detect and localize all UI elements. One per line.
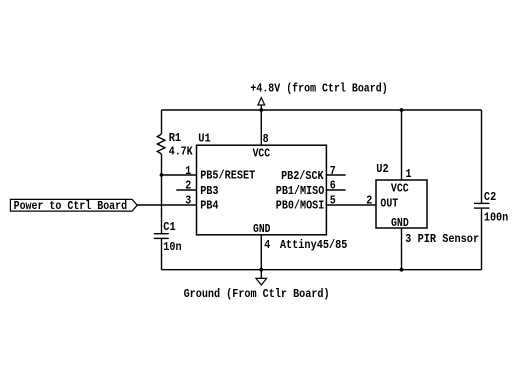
svg-text:GND: GND bbox=[253, 223, 271, 236]
wire pin 3 (flag to PB4) bbox=[137, 204, 197, 206]
svg-text:PB2/SCK: PB2/SCK bbox=[281, 170, 324, 183]
junction dot U2 pin1/top rail bbox=[400, 108, 404, 112]
svg-text:PB1/MISO: PB1/MISO bbox=[276, 185, 325, 198]
svg-text:2: 2 bbox=[185, 180, 191, 193]
capacitor C2 bbox=[474, 203, 490, 208]
junction dot pin4/bottom rail bbox=[259, 268, 263, 272]
svg-text:U1: U1 bbox=[198, 133, 210, 146]
svg-text:R1: R1 bbox=[169, 132, 181, 145]
power symbol +4.8V arrow bbox=[258, 98, 265, 110]
svg-text:3: 3 bbox=[405, 233, 411, 246]
svg-text:8: 8 bbox=[263, 133, 269, 146]
junction dot U2 pin3/bottom rail bbox=[400, 268, 404, 272]
op-amp U1 box (Attiny45/85) bbox=[197, 145, 327, 235]
svg-text:+4.8V (from Ctrl Board): +4.8V (from Ctrl Board) bbox=[250, 83, 387, 96]
svg-text:Power to Ctrl Board: Power to Ctrl Board bbox=[14, 200, 128, 213]
svg-text:PIR Sensor: PIR Sensor bbox=[418, 233, 480, 246]
svg-text:5: 5 bbox=[330, 194, 336, 207]
svg-text:PB0/MOSI: PB0/MOSI bbox=[276, 199, 325, 212]
op-amp U2 box (PIR Sensor) bbox=[376, 180, 427, 228]
capacitor C1 bbox=[154, 234, 169, 239]
svg-text:C1: C1 bbox=[163, 221, 175, 234]
wire pin 7 stub bbox=[326, 174, 345, 176]
wire pin 8 (VCC to top rail) bbox=[260, 110, 262, 145]
wire left rail lower (C1 to bottom rail) bbox=[161, 238, 163, 269]
svg-text:4: 4 bbox=[264, 239, 270, 252]
svg-text:GND: GND bbox=[391, 217, 409, 230]
svg-text:U2: U2 bbox=[376, 163, 388, 176]
svg-text:VCC: VCC bbox=[253, 148, 271, 161]
svg-text:PB3: PB3 bbox=[200, 185, 218, 198]
svg-text:OUT: OUT bbox=[380, 198, 398, 211]
svg-text:1: 1 bbox=[406, 168, 412, 181]
junction dot pin1/R1 bbox=[160, 173, 164, 177]
svg-text:PB4: PB4 bbox=[200, 199, 218, 212]
svg-text:PB5/RESET: PB5/RESET bbox=[200, 169, 255, 182]
ground symbol arrow bbox=[256, 270, 267, 285]
wire pin 6 stub bbox=[326, 189, 345, 191]
wire top rail bbox=[162, 109, 482, 111]
wire left rail mid (R1 to C1) bbox=[161, 154, 163, 233]
wire right rail upper bbox=[481, 110, 483, 203]
svg-text:C2: C2 bbox=[484, 191, 496, 204]
wire left rail upper bbox=[161, 110, 163, 134]
node flag Power to Ctrl Board bbox=[10, 199, 137, 213]
svg-text:Ground (From Ctlr Board): Ground (From Ctlr Board) bbox=[184, 288, 330, 301]
svg-text:7: 7 bbox=[330, 165, 336, 178]
wire U2 pin 1 (VCC to top rail) bbox=[401, 110, 403, 180]
wire pin 2 stub bbox=[176, 189, 196, 191]
wire pin 1 bbox=[162, 174, 197, 176]
svg-text:100n: 100n bbox=[484, 211, 508, 224]
svg-text:4.7K: 4.7K bbox=[169, 145, 193, 158]
wire bottom rail bbox=[162, 269, 482, 271]
wire right rail lower bbox=[481, 208, 483, 270]
svg-text:VCC: VCC bbox=[391, 183, 409, 196]
svg-text:6: 6 bbox=[330, 180, 336, 193]
wire pin 4 (GND to bottom rail) bbox=[260, 235, 262, 270]
svg-text:1: 1 bbox=[185, 165, 191, 178]
wire pin 5 (PB0 to U2 OUT) bbox=[326, 204, 376, 206]
wire U2 pin 3 (GND to bottom rail) bbox=[401, 228, 403, 270]
svg-text:3: 3 bbox=[185, 194, 191, 207]
svg-text:Attiny45/85: Attiny45/85 bbox=[280, 239, 348, 252]
svg-text:10n: 10n bbox=[163, 241, 181, 254]
resistor R1 bbox=[157, 134, 165, 154]
junction dot pin8/top rail bbox=[259, 108, 263, 112]
svg-text:2: 2 bbox=[366, 194, 372, 207]
